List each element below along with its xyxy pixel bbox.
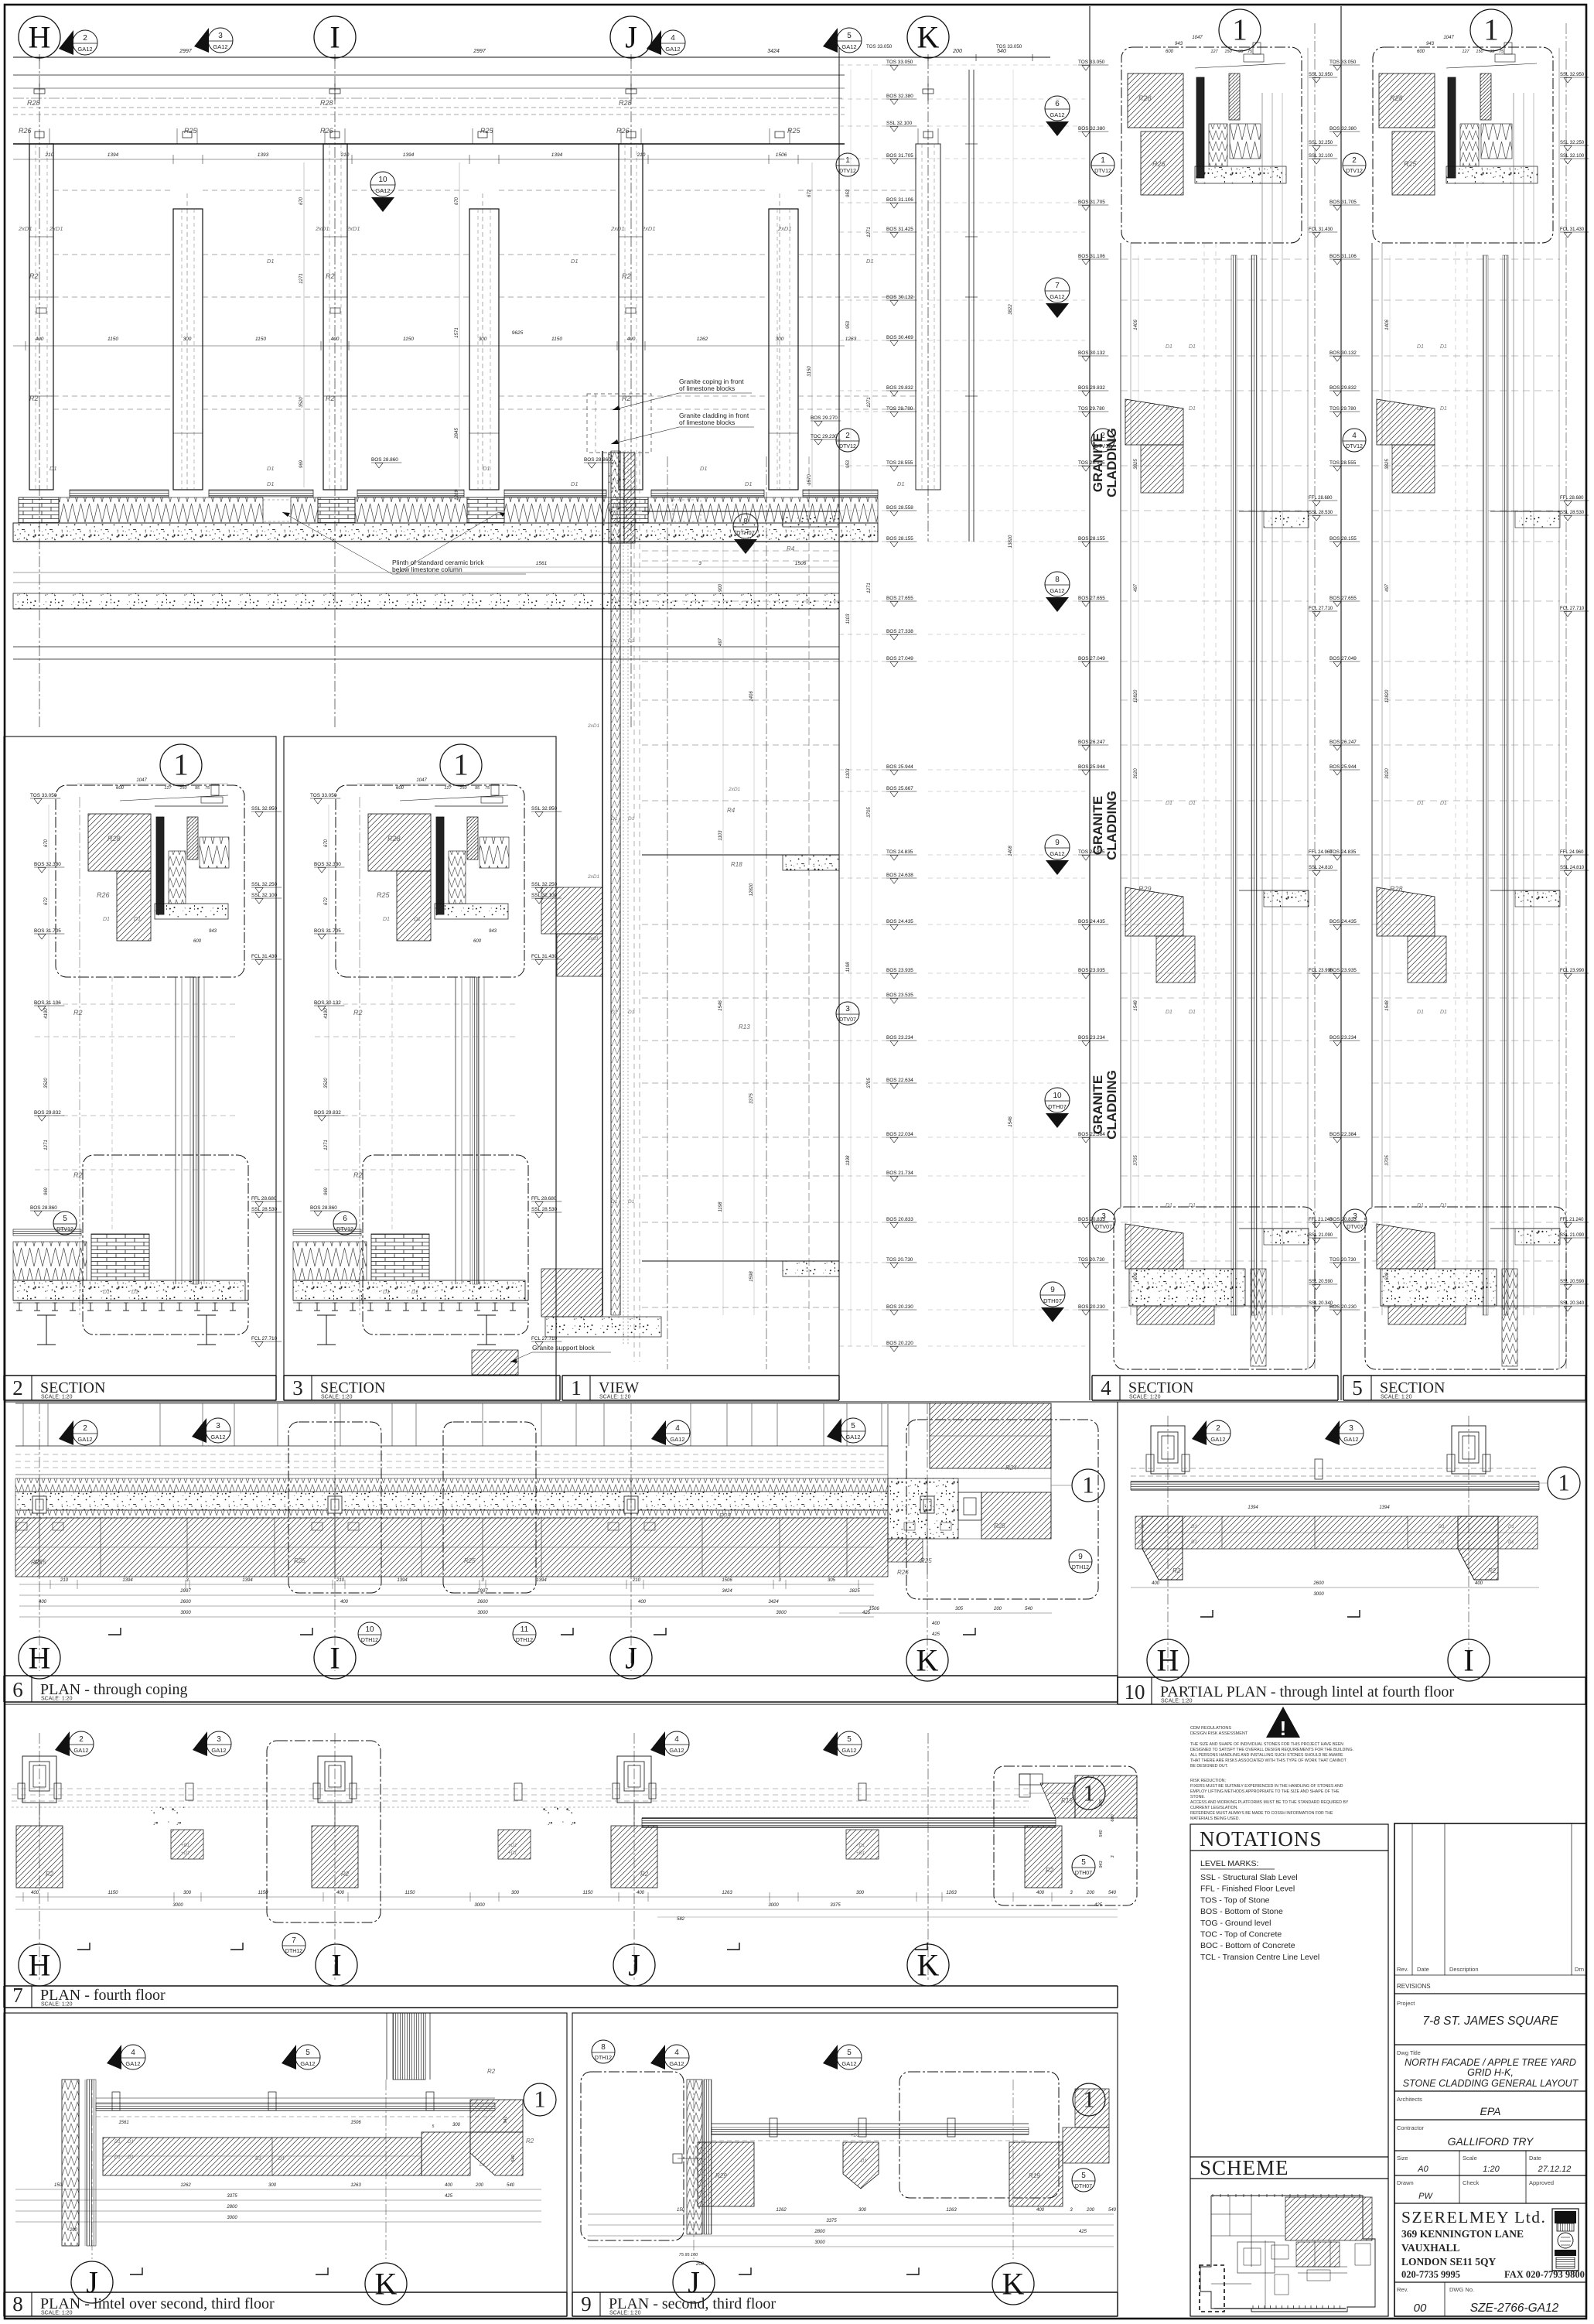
svg-text:943: 943: [1175, 42, 1183, 46]
svg-text:R24: R24: [1005, 1464, 1017, 1471]
grid bubble K: [906, 1639, 948, 1681]
svg-text:D1: D1: [1189, 344, 1196, 350]
panel 3 SECTION: [284, 737, 556, 1400]
svg-text:BOS 29.832: BOS 29.832: [34, 1110, 61, 1116]
svg-text:1271: 1271: [867, 583, 872, 593]
svg-text:SSL 32.950: SSL 32.950: [1309, 73, 1333, 77]
svg-text:DTH12: DTH12: [595, 2056, 612, 2061]
gridline J: [630, 58, 632, 727]
svg-text:127: 127: [1210, 50, 1218, 54]
svg-text:Contractor: Contractor: [1397, 2124, 1425, 2131]
svg-text:497: 497: [718, 637, 723, 646]
svg-text:RISK REDUCTION;: RISK REDUCTION;: [1190, 1779, 1226, 1783]
svg-text:BOS 29.832: BOS 29.832: [1078, 385, 1105, 391]
detail bubble 3/DTV07: [1092, 1209, 1115, 1232]
svg-text:BOS 23.935: BOS 23.935: [1078, 968, 1105, 973]
svg-text:SCALE: 1:20: SCALE: 1:20: [41, 1697, 73, 1702]
svg-text:GRID H-K,: GRID H-K,: [1467, 2067, 1514, 2078]
drawn check approved: [1459, 2175, 1460, 2203]
svg-text:FFL - Finished Floor Level: FFL - Finished Floor Level: [1200, 1885, 1295, 1894]
svg-text:EMPLOY LIFTING METHODS APPROPR: EMPLOY LIFTING METHODS APPROPRIATE TO TH…: [1190, 1789, 1340, 1794]
svg-text:R2: R2: [29, 272, 39, 280]
svg-text:D1: D1: [128, 2155, 134, 2160]
svg-text:BOS 29.832: BOS 29.832: [1329, 385, 1357, 391]
svg-text:DESIGNED TO SATISFY THE OVERAL: DESIGNED TO SATISFY THE OVERALL DESIGN R…: [1190, 1748, 1353, 1752]
svg-text:1561: 1561: [536, 561, 548, 566]
svg-text:D1: D1: [1166, 1010, 1172, 1015]
svg-text:GA12: GA12: [300, 2060, 315, 2067]
svg-text:BOS 27.049: BOS 27.049: [1078, 656, 1105, 661]
svg-text:2xD1: 2xD1: [641, 225, 656, 232]
section marker 5/GA12: [827, 1418, 841, 1443]
svg-text:5: 5: [847, 1735, 852, 1744]
svg-text:1394: 1394: [551, 152, 563, 158]
NOTATIONS box: [1190, 1824, 1388, 2316]
svg-text:2xD1: 2xD1: [346, 225, 360, 232]
svg-text:K: K: [917, 20, 940, 55]
detail ref circle 1: [1548, 1467, 1580, 1499]
svg-text:REVISIONS: REVISIONS: [1397, 1983, 1431, 1990]
svg-text:3000: 3000: [172, 1903, 183, 1908]
insulation band 2: [15, 1510, 888, 1518]
svg-text:R28: R28: [27, 99, 40, 107]
svg-text:SSL 32.100: SSL 32.100: [886, 121, 913, 126]
svg-text:D1: D1: [1189, 801, 1196, 806]
svg-text:3520: 3520: [299, 397, 304, 408]
svg-text:R18: R18: [731, 861, 742, 868]
svg-text:369 KENNINGTON LANE: 369 KENNINGTON LANE: [1401, 2228, 1524, 2240]
svg-text:670: 670: [455, 197, 459, 205]
svg-text:1506: 1506: [795, 561, 807, 566]
svg-text:600: 600: [116, 786, 125, 791]
svg-text:LONDON SE11 5QY: LONDON SE11 5QY: [1401, 2256, 1497, 2268]
facade wall section: [602, 451, 603, 1315]
stone R28: [1128, 73, 1183, 128]
svg-text:J: J: [625, 1641, 637, 1676]
svg-text:5: 5: [1352, 1376, 1363, 1400]
I-beams: [46, 1315, 47, 1345]
svg-text:DTH07: DTH07: [1043, 1297, 1062, 1304]
svg-text:941: 941: [503, 2116, 508, 2123]
rails: [712, 2123, 1029, 2124]
svg-text:BOS 25.944: BOS 25.944: [1329, 764, 1357, 770]
svg-text:3000: 3000: [768, 1903, 779, 1908]
svg-text:SSL 21.090: SSL 21.090: [1560, 1233, 1585, 1238]
svg-text:1103: 1103: [846, 768, 851, 779]
svg-text:BOS 20.833: BOS 20.833: [886, 1217, 913, 1222]
svg-text:1271: 1271: [867, 397, 872, 407]
svg-text:GA12: GA12: [670, 1436, 684, 1443]
svg-text:+D1: +D1: [856, 1844, 865, 1848]
svg-text:BOS 31.106: BOS 31.106: [1078, 254, 1105, 259]
svg-text:GA12: GA12: [211, 1747, 226, 1754]
svg-text:TOS 29.780: TOS 29.780: [1329, 406, 1357, 412]
section marker 4/GA12: [650, 2045, 665, 2069]
svg-text:3: 3: [216, 1422, 220, 1430]
svg-text:12820: 12820: [1385, 689, 1390, 702]
svg-text:600: 600: [473, 939, 482, 944]
detail bubble 2/DTV12: [1343, 153, 1366, 176]
VIEW panel section: [838, 48, 840, 1376]
svg-text:R2: R2: [622, 272, 631, 280]
svg-text:TOS 20.730: TOS 20.730: [1078, 1257, 1105, 1263]
svg-text:R25: R25: [184, 127, 198, 135]
svg-text:R26: R26: [320, 127, 333, 135]
svg-text:2: 2: [79, 1735, 84, 1744]
svg-text:TOS 28.555: TOS 28.555: [886, 460, 913, 466]
svg-text:BOS 32.380: BOS 32.380: [886, 94, 913, 99]
svg-text:4: 4: [675, 1424, 680, 1433]
svg-text:BOS 23.234: BOS 23.234: [1329, 1035, 1357, 1041]
svg-text:3375: 3375: [749, 1093, 754, 1104]
svg-text:K: K: [1002, 2267, 1025, 2302]
granite support block: [472, 1350, 518, 1375]
svg-text:3375: 3375: [826, 2219, 837, 2223]
svg-text:1047: 1047: [416, 778, 427, 783]
svg-text:DTV12: DTV12: [839, 444, 856, 449]
svg-text:SCALE: 1:20: SCALE: 1:20: [1129, 1395, 1161, 1400]
svg-text:2: 2: [83, 1424, 87, 1433]
svg-text:I: I: [329, 20, 340, 55]
svg-text:BOS 31.425: BOS 31.425: [886, 227, 913, 232]
svg-text:BOS 28.860: BOS 28.860: [371, 457, 398, 463]
svg-text:3825: 3825: [1385, 459, 1390, 470]
svg-text:R2: R2: [46, 1871, 54, 1878]
svg-text:150: 150: [1476, 50, 1483, 54]
svg-text:DTV12: DTV12: [1346, 444, 1363, 449]
svg-text:R25: R25: [1404, 160, 1418, 168]
stone R26: [397, 871, 431, 941]
svg-text:BOS 20.833: BOS 20.833: [1078, 1217, 1105, 1222]
svg-text:497: 497: [1385, 583, 1390, 592]
svg-text:1198: 1198: [846, 962, 851, 972]
window lines: [53, 190, 173, 191]
revisions table: [1411, 1823, 1413, 1975]
svg-text:6: 6: [343, 1215, 347, 1223]
svg-text:4: 4: [1101, 1376, 1111, 1400]
svg-text:D1: D1: [1417, 344, 1424, 350]
svg-text:H: H: [29, 20, 51, 55]
svg-text:8: 8: [1055, 576, 1060, 584]
svg-text:3825: 3825: [1134, 459, 1138, 470]
svg-text:VAUXHALL: VAUXHALL: [1401, 2242, 1460, 2254]
svg-text:400: 400: [1036, 2208, 1045, 2213]
limestone band plan: [15, 1518, 888, 1577]
svg-text:2800: 2800: [226, 2205, 237, 2210]
svg-text:953: 953: [846, 189, 851, 197]
svg-text:PARTIAL PLAN - through lintel: PARTIAL PLAN - through lintel at fourth …: [1160, 1683, 1454, 1700]
svg-text:DTV07: DTV07: [1347, 1225, 1364, 1230]
insulation band: [15, 1478, 888, 1492]
svg-text:1263: 1263: [350, 2183, 361, 2188]
svg-text:210: 210: [60, 1578, 69, 1583]
svg-text:1546: 1546: [1009, 1116, 1013, 1127]
svg-text:300: 300: [183, 1891, 192, 1895]
svg-text:BOS 29.832: BOS 29.832: [314, 1110, 341, 1116]
svg-text:200: 200: [1086, 2208, 1095, 2213]
svg-text:SCALE: 1:20: SCALE: 1:20: [609, 2311, 641, 2316]
svg-text:R2: R2: [1488, 1567, 1497, 1574]
svg-text:400: 400: [1152, 1581, 1160, 1586]
svg-text:D1: D1: [1138, 1525, 1145, 1529]
svg-text:Granite support block: Granite support block: [532, 1344, 596, 1352]
svg-text:400: 400: [932, 1622, 940, 1626]
gridline I: [334, 58, 336, 727]
svg-text:1394: 1394: [122, 1578, 133, 1583]
svg-text:3: 3: [698, 561, 701, 566]
scheme floor plan: [1200, 2196, 1375, 2312]
section marker 4/GA12: [107, 2045, 121, 2069]
svg-text:D1: D1: [1439, 1540, 1445, 1545]
svg-text:NOTATIONS: NOTATIONS: [1200, 1827, 1322, 1851]
svg-text:GA12: GA12: [845, 1434, 860, 1441]
svg-text:3705: 3705: [1385, 1155, 1390, 1166]
detail ref circle 1: [1072, 1469, 1104, 1502]
panel label 5 SECTION: [1343, 1375, 1585, 1376]
svg-text:9: 9: [1078, 1553, 1083, 1561]
svg-text:BOS 28.860: BOS 28.860: [310, 1205, 337, 1211]
svg-text:3: 3: [217, 1735, 221, 1744]
svg-text:I: I: [331, 1948, 341, 1983]
section marker 8/DTH07: [733, 514, 758, 538]
svg-text:5: 5: [432, 2124, 435, 2129]
svg-text:+D1: +D1: [508, 1851, 517, 1856]
svg-text:BOS 21.734: BOS 21.734: [886, 1171, 913, 1176]
svg-text:1150: 1150: [405, 1891, 416, 1895]
svg-text:D1: D1: [1166, 801, 1172, 806]
svg-text:SSL 32.100: SSL 32.100: [1309, 154, 1333, 159]
svg-text:D1: D1: [1417, 406, 1424, 412]
svg-text:GA12: GA12: [1210, 1436, 1225, 1443]
svg-text:540: 540: [997, 49, 1006, 54]
stone R26: [117, 871, 151, 941]
svg-text:600: 600: [1385, 1272, 1390, 1280]
svg-text:SSL 32.100: SSL 32.100: [251, 893, 278, 898]
svg-text:BOS 31.106: BOS 31.106: [34, 1000, 61, 1006]
grid bubble I: [1448, 1639, 1490, 1681]
svg-text:4: 4: [1352, 432, 1357, 440]
svg-text:GA12: GA12: [841, 1747, 856, 1754]
svg-text:TOC 29.230: TOC 29.230: [811, 434, 838, 439]
section marker 9/DTH07: [1040, 1282, 1065, 1307]
svg-text:THAT THERE ARE RISKS ASSOCIATE: THAT THERE ARE RISKS ASSOCIATED WITH THI…: [1190, 1758, 1347, 1763]
section marker 3/GA12: [193, 1731, 207, 1756]
svg-text:GA12: GA12: [669, 2060, 684, 2067]
svg-text:9: 9: [1055, 839, 1060, 847]
svg-text:943: 943: [489, 929, 497, 934]
svg-text:I: I: [1463, 1643, 1473, 1678]
svg-text:1394: 1394: [536, 1578, 547, 1583]
svg-text:BOS 20.833: BOS 20.833: [1329, 1217, 1357, 1222]
svg-text:J: J: [688, 2265, 700, 2300]
svg-text:670: 670: [44, 839, 49, 847]
detail bubble 3/DTV07: [836, 1002, 859, 1025]
svg-text:1406: 1406: [1385, 320, 1390, 330]
svg-text:DWG No.: DWG No.: [1449, 2286, 1474, 2293]
svg-text:4190: 4190: [44, 1008, 49, 1019]
detail ref circle 1: [524, 2083, 556, 2116]
svg-text:TOG - Ground level: TOG - Ground level: [1200, 1919, 1271, 1928]
svg-text:1506: 1506: [722, 1578, 732, 1583]
svg-text:FCL 27.710: FCL 27.710: [531, 1336, 558, 1341]
svg-text:D1: D1: [1440, 1010, 1447, 1015]
svg-text:BOS 26.247: BOS 26.247: [1329, 740, 1357, 745]
svg-text:2xD1: 2xD1: [587, 874, 600, 880]
svg-text:BE DESIGNED OUT.: BE DESIGNED OUT.: [1190, 1764, 1228, 1769]
svg-text:Drawn: Drawn: [1397, 2179, 1414, 2186]
svg-text:D1: D1: [866, 258, 874, 265]
svg-text:BOS 30.469: BOS 30.469: [886, 335, 913, 340]
svg-text:R25: R25: [464, 1557, 476, 1564]
panel label 6 PLAN - through coping: [4, 1675, 1118, 1676]
detail bubble 6/DTV12: [333, 1212, 357, 1235]
svg-text:CURRENT LEGISLATION.: CURRENT LEGISLATION.: [1190, 1806, 1238, 1810]
svg-text:D1: D1: [414, 917, 421, 922]
svg-text:7-8 ST. JAMES SQUARE: 7-8 ST. JAMES SQUARE: [1422, 2015, 1558, 2028]
svg-text:R26: R26: [897, 1569, 909, 1576]
svg-text:400: 400: [331, 337, 340, 342]
svg-text:400: 400: [627, 337, 636, 342]
svg-text:1263: 1263: [946, 1891, 957, 1895]
svg-text:BOS 28.860: BOS 28.860: [584, 457, 611, 463]
svg-text:210: 210: [45, 152, 54, 158]
svg-text:10: 10: [1053, 1092, 1062, 1100]
svg-text:Date: Date: [1529, 2155, 1541, 2162]
svg-text:D1: D1: [483, 465, 490, 472]
floor slab: [1515, 1229, 1560, 1245]
svg-text:GA12: GA12: [213, 43, 227, 50]
section marker 3/GA12: [1325, 1420, 1340, 1445]
svg-text:400: 400: [1036, 1891, 1045, 1895]
svg-text:R28: R28: [619, 99, 632, 107]
svg-text:3000: 3000: [227, 2216, 237, 2220]
svg-text:4: 4: [131, 2049, 135, 2057]
svg-text:H: H: [29, 1641, 51, 1676]
joint ticks row: [15, 1403, 930, 1404]
svg-text:+D1: +D1: [856, 1851, 865, 1856]
svg-text:150: 150: [1224, 50, 1232, 54]
svg-text:1103: 1103: [846, 613, 851, 624]
svg-text:ALL PERSONS HANDLING AND INSTA: ALL PERSONS HANDLING AND INSTALLING SUCH…: [1190, 1753, 1343, 1758]
svg-text:D1: D1: [114, 2155, 121, 2160]
svg-text:SSL 32.950: SSL 32.950: [251, 806, 278, 812]
svg-text:2: 2: [1352, 156, 1357, 165]
svg-text:969: 969: [299, 460, 304, 468]
svg-text:FFL 28.680: FFL 28.680: [251, 1196, 277, 1201]
svg-text:SCALE: 1:20: SCALE: 1:20: [41, 2002, 73, 2008]
svg-text:540: 540: [1108, 2208, 1117, 2213]
svg-text:953: 953: [846, 320, 851, 329]
svg-text:300: 300: [776, 337, 784, 342]
panel label 7 PLAN - fourth floor: [4, 1985, 1118, 1987]
svg-text:TOS 29.780: TOS 29.780: [1078, 406, 1105, 412]
svg-text:3020: 3020: [1385, 768, 1390, 779]
svg-text:Architects: Architects: [1397, 2096, 1422, 2103]
floor slab: [1264, 890, 1309, 907]
svg-text:R2: R2: [353, 1009, 363, 1017]
interior grid dashdot: [667, 456, 668, 1369]
svg-text:R2: R2: [353, 1171, 363, 1179]
svg-text:D1: D1: [411, 1290, 418, 1295]
svg-text:R2: R2: [1172, 1567, 1181, 1574]
metal deck: [19, 1303, 20, 1311]
svg-text:SSL 28.530: SSL 28.530: [531, 1207, 558, 1212]
lintel rail: [96, 2097, 495, 2099]
svg-text:CLADDING: CLADDING: [1104, 1070, 1119, 1140]
wall: [62, 2080, 79, 2246]
svg-text:TOS 33.050: TOS 33.050: [886, 60, 913, 65]
svg-text:1047: 1047: [1443, 36, 1454, 40]
svg-text:D1: D1: [1439, 1525, 1445, 1529]
svg-text:SSL 24.810: SSL 24.810: [1560, 866, 1585, 870]
svg-text:+D1: +D1: [851, 2134, 859, 2138]
svg-text:MATERIALS BEING USED.: MATERIALS BEING USED.: [1190, 1816, 1240, 1821]
svg-text:D1: D1: [103, 1290, 110, 1295]
concrete: [1196, 77, 1204, 178]
svg-text:400: 400: [336, 1891, 345, 1895]
svg-text:K: K: [916, 1643, 939, 1678]
svg-text:NORTH FACADE / APPLE TREE YARD: NORTH FACADE / APPLE TREE YARD: [1405, 2057, 1576, 2068]
svg-text:CLADDING: CLADDING: [1104, 791, 1119, 860]
svg-text:300: 300: [268, 2183, 277, 2188]
svg-text:3020: 3020: [1134, 768, 1138, 779]
svg-text:FFL 24.960: FFL 24.960: [1560, 850, 1584, 855]
svg-text:BOS 25.944: BOS 25.944: [1078, 764, 1105, 770]
svg-text:R28: R28: [1390, 94, 1403, 102]
svg-text:13820: 13820: [1009, 535, 1013, 548]
svg-text:DTH07: DTH07: [1048, 1103, 1067, 1110]
detail ref circle 1: [1073, 1777, 1105, 1810]
svg-text:SCALE: 1:20: SCALE: 1:20: [599, 1395, 631, 1400]
svg-text:R2: R2: [73, 1171, 83, 1179]
svg-text:540: 540: [1108, 1891, 1117, 1895]
panel label 9 PLAN - second, third floor: [572, 2292, 1118, 2293]
svg-text:DTH12: DTH12: [516, 1638, 533, 1643]
svg-text:D1: D1: [128, 2140, 134, 2145]
svg-text:305: 305: [828, 1578, 836, 1583]
svg-text:DTV12: DTV12: [1346, 169, 1363, 174]
svg-text:GA12: GA12: [77, 46, 92, 53]
section marker 4/GA12: [651, 1420, 666, 1445]
svg-text:GA12: GA12: [210, 1434, 225, 1441]
svg-text:GA12: GA12: [1050, 850, 1064, 857]
svg-text:150: 150: [677, 2208, 685, 2213]
svg-text:1262: 1262: [180, 2183, 191, 2188]
svg-text:BOS 24.435: BOS 24.435: [1329, 919, 1357, 924]
svg-text:below limestone column: below limestone column: [392, 566, 462, 573]
svg-text:3705: 3705: [1134, 1155, 1138, 1166]
SCHEME box: [1190, 2156, 1388, 2158]
svg-text:5: 5: [847, 32, 852, 40]
svg-text:D1: D1: [1440, 1203, 1447, 1208]
svg-text:BOS 30.132: BOS 30.132: [1329, 350, 1357, 356]
svg-text:425: 425: [1094, 1903, 1103, 1908]
detail bubble 3/DTV07: [1343, 1209, 1367, 1232]
detail bubble 2/DTV12: [1091, 429, 1114, 452]
svg-text:DTH12: DTH12: [1072, 1565, 1089, 1570]
floor slab: [1515, 890, 1560, 907]
svg-text:3000: 3000: [776, 1611, 787, 1615]
svg-text:1408: 1408: [1009, 846, 1013, 856]
svg-text:10: 10: [378, 176, 387, 184]
detail bubble 7/DTH12: [282, 1933, 305, 1957]
svg-text:D1: D1: [628, 638, 635, 644]
grid bubble J: [610, 1637, 652, 1679]
svg-text:REFERENCE MUST ALWAYS BE MADE: REFERENCE MUST ALWAYS BE MADE TO COSSH I…: [1190, 1811, 1333, 1816]
svg-text:943: 943: [1099, 1860, 1104, 1868]
svg-text:BOS 24.435: BOS 24.435: [886, 919, 913, 924]
panel 2 SECTION: [4, 737, 276, 1400]
